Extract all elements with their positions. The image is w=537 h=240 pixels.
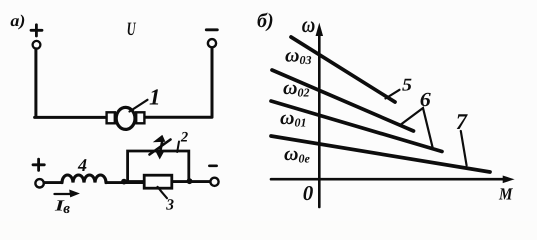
svg-text:4: 4: [77, 155, 87, 175]
svg-text:в: в: [63, 201, 70, 217]
svg-text:5: 5: [402, 75, 412, 95]
svg-text:3: 3: [165, 197, 174, 214]
svg-text:б): б): [257, 10, 274, 32]
svg-text:0: 0: [303, 181, 314, 205]
svg-text:ω: ω: [302, 12, 316, 37]
svg-text:a): a): [10, 11, 25, 30]
svg-text:U: U: [127, 19, 137, 40]
svg-text:6: 6: [420, 89, 431, 111]
svg-text:2: 2: [180, 130, 188, 146]
svg-text:1: 1: [149, 85, 161, 110]
svg-text:M: M: [498, 185, 513, 204]
svg-text:7: 7: [456, 109, 468, 134]
